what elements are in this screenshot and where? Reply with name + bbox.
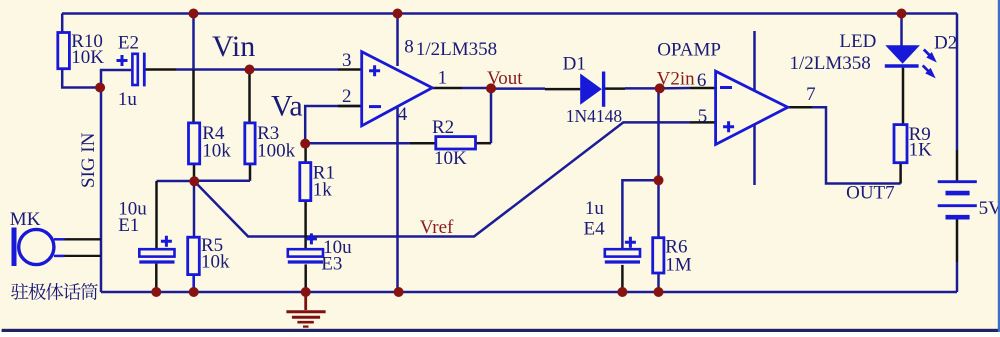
svg-text:8: 8 (404, 36, 414, 57)
svg-text:1/2LM358: 1/2LM358 (416, 39, 497, 60)
svg-text:10K: 10K (71, 47, 104, 68)
svg-text:1: 1 (438, 67, 448, 88)
svg-text:6: 6 (697, 70, 707, 91)
svg-text:E4: E4 (584, 218, 606, 239)
svg-text:OPAMP: OPAMP (657, 40, 721, 61)
svg-text:Vout: Vout (487, 68, 523, 89)
svg-text:10K: 10K (434, 148, 467, 169)
svg-text:Vin: Vin (212, 30, 255, 63)
svg-text:SIG IN: SIG IN (78, 132, 99, 188)
svg-text:D1: D1 (563, 54, 586, 75)
svg-text:V2in: V2in (657, 69, 696, 90)
svg-text:1N4148: 1N4148 (566, 106, 623, 126)
svg-text:4: 4 (398, 104, 408, 125)
svg-text:D2: D2 (934, 32, 957, 53)
svg-text:3: 3 (342, 50, 352, 71)
svg-text:5: 5 (698, 106, 708, 127)
svg-text:E1: E1 (118, 215, 139, 236)
svg-text:10k: 10k (201, 252, 230, 273)
svg-text:LED: LED (839, 31, 876, 52)
svg-text:7: 7 (806, 84, 816, 105)
svg-text:MK: MK (10, 209, 41, 230)
svg-text:R2: R2 (432, 117, 454, 138)
svg-text:OUT7: OUT7 (846, 183, 895, 204)
svg-text:5V: 5V (979, 198, 1000, 219)
svg-text:1u: 1u (118, 89, 137, 110)
svg-text:1/2LM358: 1/2LM358 (790, 53, 871, 74)
svg-text:100k: 100k (257, 141, 296, 162)
svg-text:1u: 1u (585, 198, 605, 219)
svg-text:Vref: Vref (420, 217, 454, 238)
svg-text:Va: Va (271, 89, 303, 122)
svg-text:E2: E2 (118, 33, 139, 54)
svg-text:E3: E3 (321, 253, 342, 274)
svg-text:1K: 1K (909, 140, 933, 161)
svg-text:1k: 1k (313, 179, 333, 200)
svg-text:2: 2 (342, 86, 352, 107)
svg-text:10k: 10k (202, 141, 231, 162)
svg-text:1M: 1M (665, 255, 692, 276)
